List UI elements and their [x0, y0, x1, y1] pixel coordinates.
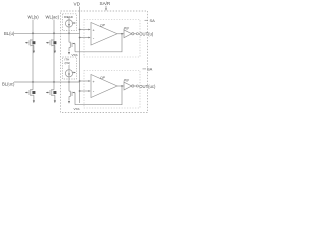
memory cell M22 [46, 82, 56, 103]
wire OP1 output [117, 33, 124, 35]
dashed box current source 2 [63, 57, 77, 79]
label ITH [65, 58, 70, 62]
node BL(u)-WL1 [32, 32, 34, 34]
memory cell M21 [25, 82, 35, 103]
terminal OUT(uc) [136, 85, 138, 87]
node BL(uc)-WL2 [53, 81, 55, 83]
svg-text:BL(u): BL(u) [4, 31, 15, 36]
wire word line WL2 vertical [53, 20, 55, 82]
svg-text:VSS: VSS [74, 107, 80, 111]
arrow SA/R to box [105, 6, 107, 9]
wire OP2 - input [80, 90, 89, 92]
arrow I1 direction [72, 22, 76, 24]
label BL(u) [4, 31, 15, 36]
svg-text:SA: SA [147, 66, 153, 71]
dashed box SA2 [84, 71, 140, 109]
label (IW) [65, 61, 71, 65]
wire word line WL1 vertical [32, 20, 34, 82]
svg-text:INV: INV [124, 26, 130, 30]
terminal OUT(u) [136, 33, 138, 35]
svg-text:VD: VD [74, 2, 81, 7]
svg-text:OP: OP [100, 24, 106, 28]
svg-text:INV: INV [124, 79, 130, 83]
label BL(uc) [2, 82, 15, 87]
wire bit line BL(u) [14, 32, 80, 34]
label WL(ac) [46, 14, 60, 19]
node BL(uc)-WL1 [32, 81, 34, 83]
wire INV1 to OUT [134, 33, 136, 35]
memory cell M11 [25, 39, 35, 53]
dashed box SA1 [84, 20, 140, 58]
current source I1 [65, 20, 72, 27]
label SA callout 1 [150, 18, 156, 23]
inverter INV2 [124, 79, 134, 90]
wire OP2 output [117, 85, 124, 87]
svg-text:OUT(u): OUT(u) [139, 32, 154, 37]
wire INV2 to OUT [134, 85, 136, 87]
outer dashed box SA/R [61, 11, 148, 113]
wire feedback 1 [75, 34, 122, 52]
svg-text:OP: OP [100, 76, 106, 80]
node BL(u)-sense [68, 32, 70, 34]
label VSS1 [72, 53, 78, 57]
svg-text:SA/R: SA/R [100, 1, 111, 6]
op-amp OP2 [91, 75, 117, 98]
wire OP1 + input [80, 29, 89, 31]
label IREAD [64, 15, 74, 19]
svg-text:(IW): (IW) [65, 61, 71, 65]
wire VD vertical rail x=79.6 [79, 7, 81, 104]
memory cell M12 [46, 39, 56, 53]
svg-text:SA: SA [150, 18, 156, 23]
wire bit line BL(uc) [14, 81, 80, 83]
label SA/R [100, 1, 111, 6]
svg-text:WL(ac): WL(ac) [46, 14, 60, 19]
wire OP1 - input [80, 37, 89, 39]
svg-text:BL(uc): BL(uc) [2, 82, 15, 87]
current source I2 [65, 70, 72, 77]
svg-text:VSS: VSS [72, 53, 78, 57]
node BL(uc)-sense [68, 81, 70, 83]
inverter INV1 [124, 26, 134, 37]
wire feedback 2 [75, 86, 122, 105]
op-amp OP1 [91, 23, 117, 46]
svg-text:OUT(uc): OUT(uc) [139, 84, 156, 89]
label SA callout 2 [147, 66, 153, 71]
wire OP2 + input [80, 80, 89, 82]
label VD [74, 2, 81, 7]
transistor clamp Q1 [68, 33, 75, 54]
label VSS2 [74, 107, 80, 111]
node BL(u)-WL2 [53, 32, 55, 34]
arrow I2 direction [72, 72, 76, 74]
label WL(s) [28, 14, 40, 19]
svg-text:WL(s): WL(s) [28, 14, 40, 19]
dashed box current source 1 [63, 14, 77, 31]
transistor clamp Q2 [68, 82, 75, 105]
